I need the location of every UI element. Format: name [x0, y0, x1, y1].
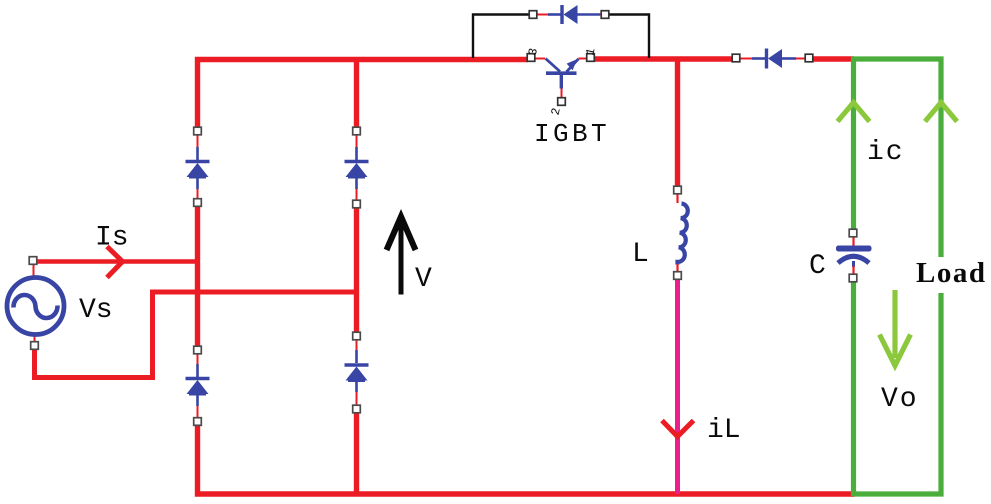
wire: top bus right segment (right diode to green corner) [812, 56, 854, 61]
terminal: loop diode left [529, 11, 537, 19]
terminal: D2 bottom [353, 200, 361, 208]
svg-text:ic: ic [867, 137, 905, 168]
terminal: IGBT pin2 [558, 98, 566, 106]
wire: right bridge leg middle [354, 208, 359, 333]
svg-text:L: L [632, 239, 649, 270]
arrow Vo (light green, points down) [880, 290, 911, 366]
wire: black anti-parallel diode loop left side [473, 15, 529, 59]
wire: green capacitor branch upper [851, 58, 856, 230]
wire: magenta inductor output down to bottom bus [675, 279, 680, 494]
terminal: source top [29, 257, 37, 265]
capacitor C plates [836, 237, 872, 274]
svg-text:Load: Load [916, 257, 986, 289]
wire: left bridge leg middle [195, 207, 200, 348]
wire: IGBT output branch down to inductor [675, 59, 680, 187]
wire: source bottom return (down, right, up, right to right leg) [35, 292, 357, 378]
wire: left bridge leg bottom [198, 425, 856, 494]
label Load [914, 258, 988, 292]
terminal: D4 top [353, 332, 361, 340]
diode D1 bridge upper-left (points up) [186, 135, 210, 199]
terminal: IGBT pin3 [527, 54, 535, 62]
terminal: capacitor bottom [849, 274, 857, 282]
arrow ic left chevron (light green, points up) [838, 103, 870, 122]
terminal: output diode right [805, 54, 813, 62]
terminal: D1 bottom [194, 199, 202, 207]
diode D4 bridge lower-right (points up) [345, 340, 369, 405]
arrow ic right chevron (light green, points up) [925, 103, 957, 122]
arrow V (black, points up) [387, 217, 416, 295]
svg-text:Vo: Vo [881, 384, 919, 415]
wire: green capacitor/load top bus and right side [851, 59, 941, 257]
wire: red stub loop-diode left [537, 14, 548, 16]
svg-text:1: 1 [583, 47, 598, 57]
svg-text:2: 2 [549, 107, 564, 117]
wire: right bridge leg top [354, 57, 359, 128]
svg-text:Is: Is [95, 223, 129, 254]
terminal: D4 bottom [353, 405, 361, 413]
terminal: D1 top [194, 127, 202, 135]
diode D3 bridge lower-left (points up) [186, 354, 210, 417]
inductor L coil [678, 194, 688, 272]
terminal: D3 bottom [194, 418, 202, 426]
diode D6 output diode (points left) on top bus [740, 49, 806, 69]
terminal: source bottom [31, 342, 39, 350]
svg-text:V: V [415, 264, 432, 295]
svg-text:C: C [809, 251, 826, 282]
diode D5 free-wheel (points left) in black loop [548, 5, 600, 24]
terminal: D3 top [194, 346, 202, 354]
diode D2 bridge upper-right (points up) [345, 135, 369, 200]
wire: left bridge leg top [195, 57, 200, 128]
wire: red stub loop-diode right [599, 14, 605, 16]
svg-text:Vs: Vs [79, 295, 113, 326]
terminal: inductor top [674, 186, 682, 194]
terminal: output diode left [732, 54, 740, 62]
wire: top bus left segment (rectifier top to IGBT pin3) [195, 57, 528, 62]
wire: green load branch lower right [854, 293, 942, 494]
terminal: inductor bottom [674, 272, 682, 280]
wire: top bus middle segment (IGBT pin1 to right diode) [594, 56, 733, 61]
svg-text:3: 3 [526, 47, 541, 57]
IGBT Q1 symbol [535, 59, 586, 99]
terminal: loop diode right [601, 11, 609, 19]
wire: black anti-parallel diode loop right side [609, 15, 649, 59]
arrow iL (red, points down) [662, 421, 694, 437]
terminal: D2 top [353, 127, 361, 135]
arrow Is (red, points right) [107, 247, 123, 278]
terminal: IGBT pin1 [587, 54, 595, 62]
wire: green capacitor branch lower [851, 282, 856, 496]
svg-text:iL: iL [707, 415, 741, 446]
svg-text:IGBT: IGBT [534, 119, 610, 149]
AC source Vs circle [7, 264, 64, 343]
wire: Is wire from source to left leg [36, 259, 197, 264]
wire: right bridge leg bottom [354, 413, 359, 495]
terminal: capacitor top [849, 229, 857, 237]
